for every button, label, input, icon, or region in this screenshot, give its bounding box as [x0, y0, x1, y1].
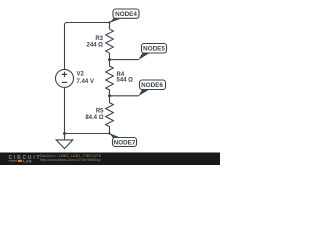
wire: chain lead top [109, 23, 111, 30]
svg-text:544 Ω: 544 Ω [117, 78, 134, 84]
svg-text:R3: R3 [95, 36, 103, 42]
ground [56, 140, 73, 149]
footer CircuitLab logo [9, 155, 42, 163]
wire: stub to NODE5 [110, 59, 139, 61]
wire: top rail horizontal [65, 23, 110, 26]
wire: R3 bottom lead [109, 53, 111, 60]
svg-text:R5: R5 [96, 109, 104, 115]
footer bar [0, 153, 220, 166]
wire: V2 bottom to bottom rail and ground stem [64, 87, 66, 139]
svg-text:LAB: LAB [23, 159, 32, 163]
wire: stub to NODE6 [110, 95, 139, 97]
svg-text:NODE4: NODE4 [115, 11, 137, 18]
voltage source V2 [56, 69, 74, 87]
junction dot at V2/ground/rail [63, 132, 66, 135]
svg-text:NODE5: NODE5 [143, 46, 165, 53]
svg-text:84.4 Ω: 84.4 Ω [85, 115, 103, 121]
junction dot NODE6 [108, 94, 111, 97]
wire: bottom rail horizontal [65, 133, 110, 135]
node NODE4 flag [109, 9, 139, 23]
resistor R4 [106, 60, 114, 96]
node NODE5 flag [138, 44, 166, 61]
svg-text:244 Ω: 244 Ω [87, 43, 104, 49]
resistor R5 [106, 96, 114, 134]
resistor R3 [106, 29, 114, 53]
wire: left vertical from top rail to V2 top [64, 25, 66, 69]
junction dot top node [108, 21, 110, 23]
svg-text:NODE6: NODE6 [141, 82, 163, 89]
svg-text:NODE7: NODE7 [114, 139, 136, 146]
junction dot bottom node [108, 132, 110, 134]
node NODE6 flag [138, 80, 165, 96]
junction dot NODE5 [108, 58, 111, 61]
svg-text:http://circuitlab.com/c/7xbr99: http://circuitlab.com/c/7xbr99hf5cy [40, 157, 100, 162]
svg-text:7.44 V: 7.44 V [77, 79, 94, 85]
svg-text:V2: V2 [77, 72, 85, 78]
node NODE7 flag [109, 133, 136, 146]
